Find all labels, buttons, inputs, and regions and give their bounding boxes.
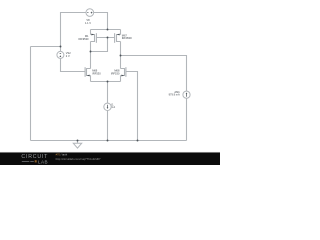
wire left rail down [30,47,32,141]
wire output rail [121,56,187,92]
node top rail / V8 [107,29,109,31]
ground [73,143,81,148]
wire node A horizontal [31,46,61,48]
node I1 bottom [107,140,109,142]
svg-text:LAB: LAB [38,159,48,164]
svg-text:IRF9530: IRF9530 [122,36,133,40]
wire bottom rail [31,140,187,142]
transistor M68 (NMOS right) [111,67,126,77]
ammeter AM1 [169,90,191,98]
wire PMOS gate bus [97,37,115,39]
node ground [77,140,79,142]
wire left NMOS source stub [90,76,92,82]
node tail [107,81,109,83]
wire right NMOS source stub [120,76,122,82]
wire V8 left down to node A [61,13,87,52]
wire V8 right to center drop [94,13,108,30]
svg-text:1.1 V: 1.1 V [85,21,91,25]
svg-text:IRF9530: IRF9530 [79,37,90,41]
wire right PMOS source stub [120,30,122,35]
wire left PMOS source stub [90,30,92,35]
svg-text:979.9 mA: 979.9 mA [169,93,180,97]
wire diode connection drop [91,38,108,52]
wire right drain column [120,42,122,69]
wire AM1 to bottom rail [186,98,188,140]
transistor M1 (PMOS left) [79,33,97,43]
wire M68 gate to ground drop [126,72,138,141]
node M68 gate bottom [137,140,139,142]
svg-text:IRF530: IRF530 [92,71,101,75]
wire VS2 to M69 gate [61,58,86,71]
voltage source VS2 [57,51,71,58]
CircuitLab logo [21,154,48,164]
watermark bar [0,152,220,165]
wire ground stub [77,141,79,144]
node left drain [90,51,92,53]
wire tail to I1 [107,82,109,104]
svg-text:1 A: 1 A [111,105,115,109]
node A [60,46,62,48]
wire top rail [91,29,121,31]
svg-text:IRF530: IRF530 [111,71,120,75]
wire left drain column [90,42,92,69]
transistor M67 (PMOS right) [115,33,133,43]
voltage source V8 [85,9,94,25]
transistor M69 (NMOS left) [85,67,101,77]
svg-text:2 V: 2 V [66,54,70,58]
wire sources rail [91,81,121,83]
node output [120,55,122,57]
node PMOS gates [107,37,109,39]
svg-text:http://circuitlab.com/cuq7Thzu: http://circuitlab.com/cuq7Thzu32d67 [56,157,101,161]
node junction dots [60,29,139,142]
wire I1 to bottom rail [107,110,109,140]
current source I1 [104,102,116,110]
